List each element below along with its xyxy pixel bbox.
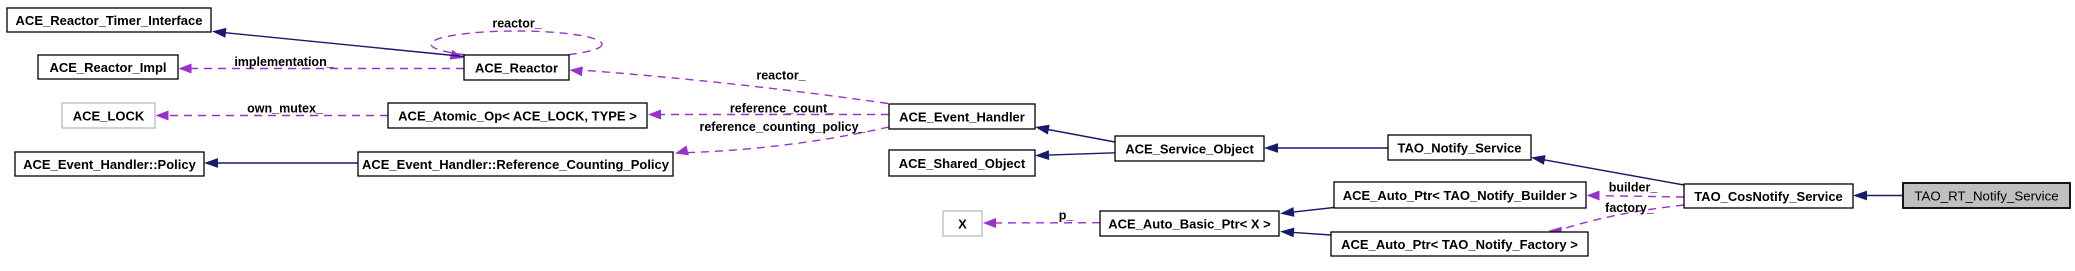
node ACE_Event_Handler::Reference_Counting_Policy xyxy=(358,152,673,176)
edge inheritance Reference_Counting_Policy to ACE_Event_Handler::Policy xyxy=(204,158,358,168)
edge builder_ TAO_CosNotify_Service to ACE_Auto_Ptr TAO_Notify_Builder xyxy=(1587,191,1685,201)
svg-text:ACE_Atomic_Op< ACE_LOCK, TYPE: ACE_Atomic_Op< ACE_LOCK, TYPE > xyxy=(398,108,637,123)
node ACE_Reactor_Impl xyxy=(38,55,178,79)
svg-text:ACE_Auto_Basic_Ptr< X >: ACE_Auto_Basic_Ptr< X > xyxy=(1108,216,1271,231)
node ACE_Reactor_Timer_Interface xyxy=(7,8,211,32)
edge inheritance TAO_Notify_Service to ACE_Service_Object xyxy=(1264,143,1388,153)
svg-text:ACE_Reactor: ACE_Reactor xyxy=(475,60,558,75)
edge implementation_ ACE_Reactor to ACE_Reactor_Impl xyxy=(179,64,465,74)
svg-text:own_mutex_: own_mutex_ xyxy=(247,102,324,116)
svg-text:reference_counting_policy_: reference_counting_policy_ xyxy=(699,120,866,134)
svg-text:reference_count_: reference_count_ xyxy=(730,102,835,116)
edge reactor_ ACE_Event_Handler to ACE_Reactor xyxy=(570,66,889,103)
svg-text:ACE_Auto_Ptr< TAO_Notify_Build: ACE_Auto_Ptr< TAO_Notify_Builder > xyxy=(1343,188,1578,203)
node ACE_Auto_Basic_Ptr< X > xyxy=(1100,211,1279,236)
node ACE_Atomic_Op< ACE_LOCK, TYPE > xyxy=(388,103,647,128)
edge inheritance ACE_Service_Object to ACE_Shared_Object xyxy=(1035,150,1115,160)
svg-text:ACE_Event_Handler::Policy: ACE_Event_Handler::Policy xyxy=(23,157,196,172)
svg-text:TAO_CosNotify_Service: TAO_CosNotify_Service xyxy=(1694,189,1843,204)
edge p_ ACE_Auto_Basic_Ptr to X xyxy=(983,218,1100,228)
svg-text:ACE_Reactor_Timer_Interface: ACE_Reactor_Timer_Interface xyxy=(16,13,203,28)
svg-text:X: X xyxy=(958,216,967,231)
svg-text:ACE_Event_Handler: ACE_Event_Handler xyxy=(899,109,1025,124)
edge inheritance ACE_Reactor to ACE_Reactor_Timer_Interface xyxy=(212,28,464,57)
edge inheritance ACE_Auto_Ptr TAO_Notify_Factory to ACE_Auto_Basic_Ptr xyxy=(1280,228,1331,238)
svg-text:reactor_: reactor_ xyxy=(756,69,806,83)
svg-text:p_: p_ xyxy=(1059,209,1075,223)
svg-text:factory_: factory_ xyxy=(1605,201,1655,215)
node ACE_Shared_Object xyxy=(889,150,1035,176)
svg-text:TAO_Notify_Service: TAO_Notify_Service xyxy=(1397,140,1521,155)
svg-text:ACE_Reactor_Impl: ACE_Reactor_Impl xyxy=(49,60,166,75)
node ACE_LOCK xyxy=(62,103,155,128)
node ACE_Event_Handler::Policy xyxy=(15,152,204,176)
node ACE_Auto_Ptr< TAO_Notify_Factory > xyxy=(1331,232,1588,256)
svg-text:reactor_: reactor_ xyxy=(492,17,542,31)
node TAO_Notify_Service xyxy=(1388,135,1531,160)
edge reactor_ self-loop on ACE_Reactor xyxy=(431,31,602,60)
node ACE_Reactor xyxy=(464,55,569,80)
edge own_mutex_ ACE_Atomic_Op to ACE_LOCK xyxy=(156,111,389,121)
edge inheritance TAO_CosNotify_Service to TAO_Notify_Service xyxy=(1531,155,1684,185)
node X xyxy=(943,211,982,236)
edge reference_count_ ACE_Event_Handler to ACE_Atomic_Op xyxy=(648,110,889,120)
svg-text:ACE_Auto_Ptr< TAO_Notify_Facto: ACE_Auto_Ptr< TAO_Notify_Factory > xyxy=(1341,237,1578,252)
node ACE_Auto_Ptr< TAO_Notify_Builder > xyxy=(1334,182,1586,208)
edge reference_counting_policy_ ACE_Event_Handler to Reference_Counting_Policy xyxy=(675,127,889,155)
edge inheritance ACE_Auto_Ptr TAO_Notify_Builder to ACE_Auto_Basic_Ptr xyxy=(1280,207,1334,217)
node ACE_Service_Object xyxy=(1115,136,1264,161)
svg-text:TAO_RT_Notify_Service: TAO_RT_Notify_Service xyxy=(1914,188,2058,203)
svg-text:builder_: builder_ xyxy=(1609,181,1659,195)
node ACE_Event_Handler xyxy=(889,104,1035,129)
edge inheritance ACE_Service_Object to ACE_Event_Handler xyxy=(1035,125,1115,142)
svg-text:ACE_Event_Handler::Reference_C: ACE_Event_Handler::Reference_Counting_Po… xyxy=(362,157,670,172)
edge factory_ TAO_CosNotify_Service to ACE_Auto_Ptr TAO_Notify_Factory xyxy=(1549,205,1685,237)
svg-text:ACE_Shared_Object: ACE_Shared_Object xyxy=(899,156,1026,171)
svg-text:ACE_LOCK: ACE_LOCK xyxy=(73,108,145,123)
node TAO_CosNotify_Service xyxy=(1684,184,1853,208)
edge inheritance TAO_RT_Notify_Service to TAO_CosNotify_Service xyxy=(1853,191,1903,201)
node TAO_RT_Notify_Service xyxy=(1903,183,2070,208)
svg-text:implementation_: implementation_ xyxy=(234,55,334,69)
svg-text:ACE_Service_Object: ACE_Service_Object xyxy=(1125,141,1254,156)
